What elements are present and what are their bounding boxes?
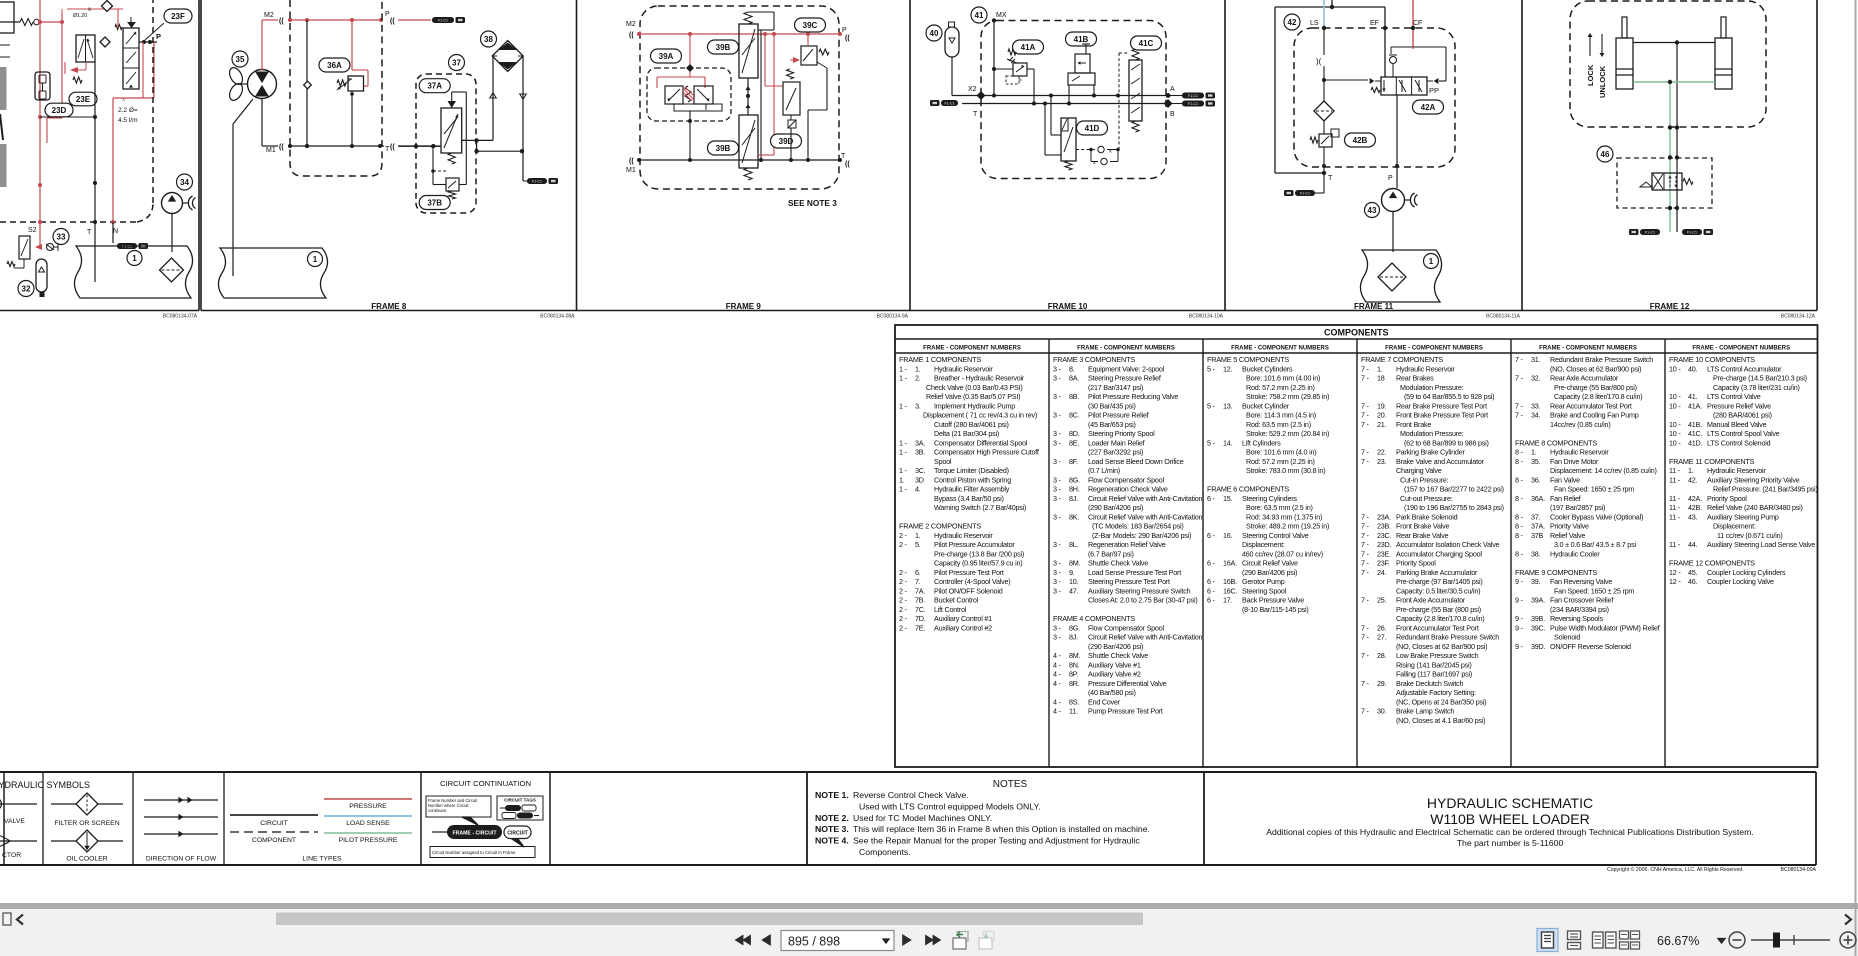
svg-text:40.: 40. bbox=[1688, 364, 1698, 373]
svg-text:Stroke: 529.2 mm (20.84 in): Stroke: 529.2 mm (20.84 in) bbox=[1246, 429, 1329, 438]
svg-text:18: 18 bbox=[1377, 374, 1385, 383]
svg-text:Additional copies of this Hydr: Additional copies of this Hydraulic and … bbox=[1266, 827, 1754, 837]
svg-text:34: 34 bbox=[180, 178, 189, 187]
svg-text:7 -: 7 - bbox=[1361, 374, 1370, 383]
svg-text:6 -: 6 - bbox=[1207, 596, 1216, 605]
svg-text:(197 Bar/2857 psi): (197 Bar/2857 psi) bbox=[1550, 503, 1605, 512]
svg-text:8 -: 8 - bbox=[1515, 475, 1524, 484]
svg-text:7 -: 7 - bbox=[1361, 401, 1370, 410]
svg-text:Pre-charge (55 Bar (800 psi): Pre-charge (55 Bar (800 psi) bbox=[1396, 605, 1481, 614]
svg-text:3 -: 3 - bbox=[1053, 633, 1062, 642]
svg-text:A: A bbox=[1170, 86, 1175, 93]
svg-text:Loader Main Relief: Loader Main Relief bbox=[1088, 438, 1145, 447]
svg-text:36A.: 36A. bbox=[1531, 494, 1545, 503]
svg-text:7A.: 7A. bbox=[915, 586, 925, 595]
svg-text:7 -: 7 - bbox=[1361, 623, 1370, 632]
svg-text:BC080134-11A: BC080134-11A bbox=[1486, 314, 1520, 320]
svg-text:COMPONENTS: COMPONENTS bbox=[1324, 328, 1389, 338]
svg-text:8D.: 8D. bbox=[1069, 429, 1080, 438]
svg-text:Hydraulic Filter Assembly: Hydraulic Filter Assembly bbox=[934, 485, 1010, 494]
svg-text:Fan Reversing Valve: Fan Reversing Valve bbox=[1550, 577, 1612, 586]
svg-text:66.67%: 66.67% bbox=[1657, 934, 1699, 948]
svg-text:41D: 41D bbox=[1085, 124, 1100, 133]
svg-text:Implement Hydraulic Pump: Implement Hydraulic Pump bbox=[934, 401, 1015, 410]
svg-text:28.: 28. bbox=[1377, 651, 1387, 660]
svg-text:7 -: 7 - bbox=[1361, 707, 1370, 716]
svg-text:23.: 23. bbox=[1377, 457, 1387, 466]
svg-text:3 -: 3 - bbox=[1053, 586, 1062, 595]
svg-text:VALVE: VALVE bbox=[4, 818, 25, 825]
svg-text:5 -: 5 - bbox=[1207, 438, 1216, 447]
svg-text:27.: 27. bbox=[1377, 633, 1387, 642]
svg-text:HYDRAULIC SYMBOLS: HYDRAULIC SYMBOLS bbox=[0, 780, 90, 790]
svg-text:3 -: 3 - bbox=[1053, 374, 1062, 383]
svg-text:FRAME 8: FRAME 8 bbox=[371, 302, 407, 311]
svg-text:Parking Brake Accumulator: Parking Brake Accumulator bbox=[1396, 568, 1478, 577]
svg-text:Cutoff (280 Bar/4061 psi): Cutoff (280 Bar/4061 psi) bbox=[934, 420, 1009, 429]
svg-text:((: (( bbox=[390, 144, 395, 151]
svg-text:CIRCUIT: CIRCUIT bbox=[260, 820, 288, 827]
svg-text:23D.: 23D. bbox=[1377, 540, 1392, 549]
svg-text:42: 42 bbox=[1288, 18, 1297, 27]
svg-text:BC080134-07A: BC080134-07A bbox=[163, 314, 198, 320]
svg-text:7 -: 7 - bbox=[1361, 596, 1370, 605]
svg-text:Auxiliary Valve #1: Auxiliary Valve #1 bbox=[1088, 660, 1141, 669]
svg-text:T: T bbox=[973, 111, 978, 118]
svg-text:Coupler Locking Valve: Coupler Locking Valve bbox=[1707, 577, 1774, 586]
svg-text:20.: 20. bbox=[1377, 411, 1387, 420]
svg-text:2 -: 2 - bbox=[899, 586, 908, 595]
svg-text:(8-10 Bar/115-145 psi): (8-10 Bar/115-145 psi) bbox=[1242, 605, 1309, 614]
svg-text:33.: 33. bbox=[1531, 401, 1541, 410]
svg-text:Hydraulic Reservoir: Hydraulic Reservoir bbox=[934, 364, 993, 373]
svg-text:7 -: 7 - bbox=[1361, 540, 1370, 549]
svg-text:FRAME 11 COMPONENTS: FRAME 11 COMPONENTS bbox=[1669, 457, 1755, 466]
svg-text:Pre-charge (55 Bar/800 psi): Pre-charge (55 Bar/800 psi) bbox=[1554, 383, 1637, 392]
svg-text:1.: 1. bbox=[899, 475, 905, 484]
svg-text:41A.: 41A. bbox=[1688, 401, 1702, 410]
svg-text:23E.: 23E. bbox=[1377, 549, 1391, 558]
svg-text:7 -: 7 - bbox=[1361, 568, 1370, 577]
svg-text:LTS Control Valve: LTS Control Valve bbox=[1707, 392, 1761, 401]
svg-text:7 -: 7 - bbox=[1515, 355, 1524, 364]
svg-text:(30 Bar/435 psi): (30 Bar/435 psi) bbox=[1088, 401, 1136, 410]
svg-text:3.0 ± 0.6 Bar/ 43.5 ± 8.7 psi: 3.0 ± 0.6 Bar/ 43.5 ± 8.7 psi bbox=[1554, 540, 1636, 549]
svg-text:BC080134-10A: BC080134-10A bbox=[1189, 314, 1224, 320]
svg-text:37: 37 bbox=[452, 58, 461, 67]
svg-text:Redundant Brake Pressure Switc: Redundant Brake Pressure Switch bbox=[1550, 355, 1653, 364]
svg-text:8M.: 8M. bbox=[1069, 651, 1081, 660]
svg-text:7 -: 7 - bbox=[1361, 549, 1370, 558]
svg-text:W110B WHEEL LOADER: W110B WHEEL LOADER bbox=[1430, 811, 1590, 827]
svg-text:7.: 7. bbox=[915, 577, 921, 586]
svg-text:Capacity (3.78 liter/231 cu/in: Capacity (3.78 liter/231 cu/in) bbox=[1713, 383, 1800, 392]
svg-text:F1-C1: F1-C1 bbox=[1687, 230, 1697, 234]
svg-text:MX: MX bbox=[996, 12, 1007, 19]
svg-text:1: 1 bbox=[1429, 257, 1434, 266]
svg-text:((: (( bbox=[629, 32, 634, 39]
svg-text:8 -: 8 - bbox=[1515, 448, 1524, 457]
svg-text:LTS Control Spool Valve: LTS Control Spool Valve bbox=[1707, 429, 1780, 438]
svg-text:11 -: 11 - bbox=[1669, 466, 1681, 475]
svg-text:End Cover: End Cover bbox=[1088, 697, 1121, 706]
svg-text:LINE TYPES: LINE TYPES bbox=[302, 856, 342, 863]
svg-text:23F: 23F bbox=[171, 12, 185, 21]
svg-text:Lift Control: Lift Control bbox=[934, 605, 967, 614]
svg-text:Bucket Cylinders: Bucket Cylinders bbox=[1242, 364, 1293, 373]
svg-text:Delta (21 Bar/304 psi): Delta (21 Bar/304 psi) bbox=[934, 429, 999, 438]
svg-text:F1-C1: F1-C1 bbox=[1188, 94, 1198, 98]
svg-text:3 -: 3 - bbox=[1053, 392, 1062, 401]
svg-text:3C.: 3C. bbox=[915, 466, 926, 475]
svg-text:Rear Brake Valve: Rear Brake Valve bbox=[1396, 531, 1448, 540]
svg-text:Parking Brake Cylinder: Parking Brake Cylinder bbox=[1396, 448, 1465, 457]
svg-text:10 -: 10 - bbox=[1669, 392, 1681, 401]
svg-text:41D.: 41D. bbox=[1688, 438, 1703, 447]
svg-text:7 -: 7 - bbox=[1361, 457, 1370, 466]
svg-text:Auxiliary Steering Priority Va: Auxiliary Steering Priority Valve bbox=[1707, 475, 1800, 484]
svg-text:FRAME - COMPONENT NUMBERS: FRAME - COMPONENT NUMBERS bbox=[1231, 346, 1329, 352]
svg-text:3 -: 3 - bbox=[1053, 364, 1062, 373]
svg-text:1 -: 1 - bbox=[899, 448, 908, 457]
svg-text:23B.: 23B. bbox=[1377, 522, 1391, 531]
svg-text:7B.: 7B. bbox=[915, 596, 925, 605]
svg-text:PP: PP bbox=[1429, 86, 1439, 95]
svg-text:23A.: 23A. bbox=[1377, 512, 1391, 521]
svg-text:3.: 3. bbox=[915, 401, 921, 410]
svg-text:2 -: 2 - bbox=[899, 577, 908, 586]
svg-text:3 -: 3 - bbox=[1053, 494, 1062, 503]
svg-text:Priority Spool: Priority Spool bbox=[1707, 494, 1747, 503]
svg-text:41B: 41B bbox=[1074, 35, 1089, 44]
svg-text:CTOR: CTOR bbox=[2, 852, 21, 859]
svg-text:42B: 42B bbox=[1353, 136, 1368, 145]
svg-text:4 -: 4 - bbox=[1053, 651, 1062, 660]
svg-text:M1: M1 bbox=[626, 167, 636, 174]
svg-text:7 -: 7 - bbox=[1515, 374, 1524, 383]
svg-text:4.: 4. bbox=[915, 485, 921, 494]
svg-text:Pre-charge (13.8 Bar /200 psi): Pre-charge (13.8 Bar /200 psi) bbox=[934, 549, 1024, 558]
svg-text:Rear Brakes: Rear Brakes bbox=[1396, 374, 1434, 383]
svg-text:8K.: 8K. bbox=[1069, 512, 1079, 521]
svg-text:41B.: 41B. bbox=[1688, 420, 1702, 429]
svg-text:T: T bbox=[1328, 175, 1333, 182]
svg-text:CIRCUIT: CIRCUIT bbox=[507, 831, 527, 837]
svg-text:10 -: 10 - bbox=[1669, 438, 1681, 447]
svg-text:(40 Bar/580 psi): (40 Bar/580 psi) bbox=[1088, 688, 1136, 697]
svg-text:Accumulator Isolation Check Va: Accumulator Isolation Check Valve bbox=[1396, 540, 1499, 549]
svg-text:10 -: 10 - bbox=[1669, 364, 1681, 373]
svg-text:Flow Compensator Spool: Flow Compensator Spool bbox=[1088, 623, 1164, 632]
svg-text:LOAD SENSE: LOAD SENSE bbox=[346, 820, 390, 827]
svg-text:Pilot Pressure Accumulator: Pilot Pressure Accumulator bbox=[934, 540, 1015, 549]
svg-text:4 -: 4 - bbox=[1053, 670, 1062, 679]
svg-text:FRAME - COMPONENT NUMBERS: FRAME - COMPONENT NUMBERS bbox=[1077, 346, 1175, 352]
svg-text:((: (( bbox=[279, 144, 284, 151]
svg-text:LOCK: LOCK bbox=[1586, 64, 1595, 86]
svg-text:ON/OFF Reverse Solenoid: ON/OFF Reverse Solenoid bbox=[1550, 642, 1631, 651]
svg-text:10 -: 10 - bbox=[1669, 401, 1681, 410]
svg-text:1.: 1. bbox=[915, 364, 921, 373]
svg-text:FRAME 6 COMPONENTS: FRAME 6 COMPONENTS bbox=[1207, 485, 1289, 494]
svg-text:See the Repair Manual for the: See the Repair Manual for the proper Tes… bbox=[853, 836, 1140, 846]
svg-text:Bore: 114.3 mm (4.5 in): Bore: 114.3 mm (4.5 in) bbox=[1246, 411, 1316, 420]
svg-text:Front Brake Valve: Front Brake Valve bbox=[1396, 522, 1449, 531]
svg-text:CIRCUIT TAGS: CIRCUIT TAGS bbox=[504, 798, 536, 803]
svg-text:Breather - Hydraulic Reservoir: Breather - Hydraulic Reservoir bbox=[934, 374, 1025, 383]
svg-text:Displacement:: Displacement: bbox=[1242, 540, 1285, 549]
svg-text:((: (( bbox=[390, 18, 395, 25]
svg-text:13.: 13. bbox=[1223, 401, 1233, 410]
svg-text:23D: 23D bbox=[52, 106, 67, 115]
svg-text:8E.: 8E. bbox=[1069, 438, 1079, 447]
svg-text:Brake Valve and Accumulator: Brake Valve and Accumulator bbox=[1396, 457, 1485, 466]
svg-text:41: 41 bbox=[975, 11, 984, 20]
svg-text:14cc/rev (0.85 cu/in): 14cc/rev (0.85 cu/in) bbox=[1550, 420, 1611, 429]
svg-text:Park Brake Solenoid: Park Brake Solenoid bbox=[1396, 512, 1458, 521]
svg-text:Controller (4-Spool Valve): Controller (4-Spool Valve) bbox=[934, 577, 1010, 586]
svg-text:x: x bbox=[1109, 149, 1112, 155]
svg-text:(217 Bar/3147 psi): (217 Bar/3147 psi) bbox=[1088, 383, 1143, 392]
svg-text:Capacity: 0.5 liter/30.5 cu/in: Capacity: 0.5 liter/30.5 cu/in) bbox=[1396, 586, 1480, 595]
svg-text:Auxiliary Steering Load Sense: Auxiliary Steering Load Sense Valve bbox=[1707, 540, 1815, 549]
svg-text:(0.7 L/min): (0.7 L/min) bbox=[1088, 466, 1120, 475]
svg-text:7 -: 7 - bbox=[1515, 401, 1524, 410]
svg-text:46.: 46. bbox=[1688, 577, 1698, 586]
svg-text:P: P bbox=[156, 32, 161, 41]
svg-text:11 -: 11 - bbox=[1669, 512, 1681, 521]
svg-text:Priority Valve: Priority Valve bbox=[1550, 522, 1589, 531]
svg-text:Steering Control Valve: Steering Control Valve bbox=[1242, 531, 1309, 540]
svg-text:16B.: 16B. bbox=[1223, 577, 1237, 586]
svg-text:4 -: 4 - bbox=[1053, 697, 1062, 706]
svg-text:Compensator High Pressure Cuto: Compensator High Pressure Cutoff bbox=[934, 448, 1039, 457]
svg-text:46: 46 bbox=[1601, 150, 1610, 159]
svg-text:Brake Declutch Switch: Brake Declutch Switch bbox=[1396, 679, 1464, 688]
svg-text:Auxiliary Steering Pressure Sw: Auxiliary Steering Pressure Switch bbox=[1088, 586, 1191, 595]
svg-text:Rod: 63.5 mm (2.5 in): Rod: 63.5 mm (2.5 in) bbox=[1246, 420, 1311, 429]
svg-text:Pilot Pressure Relief: Pilot Pressure Relief bbox=[1088, 411, 1149, 420]
svg-text:FILTER OR SCREEN: FILTER OR SCREEN bbox=[54, 820, 119, 827]
svg-text:Displacement ( 71 cc rev/4.3 c: Displacement ( 71 cc rev/4.3 cu in rev) bbox=[923, 411, 1037, 420]
svg-text:26.: 26. bbox=[1377, 623, 1387, 632]
svg-text:8C.: 8C. bbox=[1069, 411, 1080, 420]
svg-text:38: 38 bbox=[484, 35, 493, 44]
svg-text:FRAME - CIRCUIT: FRAME - CIRCUIT bbox=[452, 831, 497, 837]
svg-text:X2: X2 bbox=[968, 86, 977, 93]
svg-text:5.: 5. bbox=[915, 540, 921, 549]
svg-text:10.: 10. bbox=[1069, 577, 1079, 586]
svg-text:23F.: 23F. bbox=[1377, 559, 1390, 568]
svg-text:(290 Bar/4206 psi): (290 Bar/4206 psi) bbox=[1242, 568, 1297, 577]
svg-text:Rear Accumulator Test Port: Rear Accumulator Test Port bbox=[1550, 401, 1632, 410]
svg-text:Solenoid: Solenoid bbox=[1554, 633, 1580, 642]
svg-text:Ø1.20: Ø1.20 bbox=[73, 13, 87, 19]
svg-text:FRAME 12: FRAME 12 bbox=[1650, 302, 1690, 311]
svg-text:((: (( bbox=[629, 158, 634, 165]
svg-text:3 -: 3 - bbox=[1053, 475, 1062, 484]
svg-text:3 -: 3 - bbox=[1053, 568, 1062, 577]
svg-text:8M.: 8M. bbox=[1069, 559, 1081, 568]
svg-text:Fan Speed: 1650 ± 25 rpm: Fan Speed: 1650 ± 25 rpm bbox=[1554, 586, 1634, 595]
svg-text:8P.: 8P. bbox=[1069, 670, 1078, 679]
svg-text:8.: 8. bbox=[1069, 364, 1075, 373]
svg-text:Bore: 101.6 mm (4.0 in): Bore: 101.6 mm (4.0 in) bbox=[1246, 448, 1316, 457]
svg-text:FRAME - COMPONENT NUMBERS: FRAME - COMPONENT NUMBERS bbox=[923, 346, 1021, 352]
svg-text:Front Brake Pressure Test Port: Front Brake Pressure Test Port bbox=[1396, 411, 1488, 420]
svg-text:OIL COOLER: OIL COOLER bbox=[66, 856, 107, 863]
svg-text:1: 1 bbox=[313, 255, 318, 264]
svg-text:CIRCUIT CONTINUATION: CIRCUIT CONTINUATION bbox=[440, 779, 531, 788]
svg-text:PRESSURE: PRESSURE bbox=[349, 803, 387, 810]
svg-text:8 -: 8 - bbox=[1515, 494, 1524, 503]
svg-text:F1-C1: F1-C1 bbox=[1645, 230, 1655, 234]
svg-text:FRAME 7 COMPONENTS: FRAME 7 COMPONENTS bbox=[1361, 355, 1443, 364]
svg-text:9 -: 9 - bbox=[1515, 642, 1524, 651]
svg-text:((: (( bbox=[279, 18, 284, 25]
svg-text:FRAME 3 COMPONENTS: FRAME 3 COMPONENTS bbox=[1053, 355, 1135, 364]
svg-text:Stroke: 758.2 mm (29.85 in): Stroke: 758.2 mm (29.85 in) bbox=[1246, 392, 1329, 401]
svg-text:8G.: 8G. bbox=[1069, 475, 1080, 484]
svg-text:FRAME 9: FRAME 9 bbox=[726, 302, 762, 311]
svg-text:S2: S2 bbox=[28, 227, 37, 234]
svg-text:Hydraulic Reservoir: Hydraulic Reservoir bbox=[934, 531, 993, 540]
svg-text:Copyright © 2006. CNH America: Copyright © 2006. CNH America, LLC. All … bbox=[1607, 866, 1744, 873]
svg-text:NOTE 2.: NOTE 2. bbox=[815, 813, 849, 823]
svg-text:9 -: 9 - bbox=[1515, 614, 1524, 623]
svg-text:8N.: 8N. bbox=[1069, 660, 1080, 669]
svg-text:16.: 16. bbox=[1223, 531, 1233, 540]
svg-text:Shuttle Check Valve: Shuttle Check Valve bbox=[1088, 651, 1148, 660]
svg-text:31.: 31. bbox=[1531, 355, 1541, 364]
svg-text:8G.: 8G. bbox=[1069, 623, 1080, 632]
svg-text:Rod: 34.93 mm (1.375 in): Rod: 34.93 mm (1.375 in) bbox=[1246, 512, 1322, 521]
svg-text:Bore: 101.6 mm (4.00 in): Bore: 101.6 mm (4.00 in) bbox=[1246, 374, 1320, 383]
svg-text:Steering Pressure Relief: Steering Pressure Relief bbox=[1088, 374, 1161, 383]
svg-text:Front Brake: Front Brake bbox=[1396, 420, 1431, 429]
svg-text:Rod: 57.2 mm (2.25 in): Rod: 57.2 mm (2.25 in) bbox=[1246, 457, 1315, 466]
svg-text:1.: 1. bbox=[1688, 466, 1694, 475]
svg-text:7 -: 7 - bbox=[1361, 448, 1370, 457]
svg-text:4.5 l/m: 4.5 l/m bbox=[118, 117, 138, 124]
svg-text:42A.: 42A. bbox=[1688, 494, 1702, 503]
svg-text:FRAME 10: FRAME 10 bbox=[1048, 302, 1088, 311]
svg-text:FRAME 11: FRAME 11 bbox=[1354, 302, 1394, 311]
svg-text:Steering Pressure Test Port: Steering Pressure Test Port bbox=[1088, 577, 1170, 586]
svg-text:3 -: 3 - bbox=[1053, 411, 1062, 420]
svg-text:Hydraulic Reservoir: Hydraulic Reservoir bbox=[1707, 466, 1766, 475]
svg-text:Accumulator Charging Spool: Accumulator Charging Spool bbox=[1396, 549, 1482, 558]
svg-text:x: x bbox=[122, 97, 125, 103]
svg-text:35.: 35. bbox=[1531, 457, 1541, 466]
svg-text:39B.: 39B. bbox=[1531, 614, 1545, 623]
svg-text:7 -: 7 - bbox=[1361, 420, 1370, 429]
svg-text:39A.: 39A. bbox=[1531, 596, 1545, 605]
svg-text:BC080134-08A: BC080134-08A bbox=[540, 314, 575, 320]
svg-text:Adjustable Factory Setting:: Adjustable Factory Setting: bbox=[1396, 688, 1476, 697]
svg-text:12 -: 12 - bbox=[1669, 568, 1681, 577]
svg-text:1.: 1. bbox=[1377, 364, 1383, 373]
svg-text:Regeneration Check Valve: Regeneration Check Valve bbox=[1088, 485, 1168, 494]
svg-text:Gerotor Pump: Gerotor Pump bbox=[1242, 577, 1285, 586]
svg-text:FRAME 2 COMPONENTS: FRAME 2 COMPONENTS bbox=[899, 522, 981, 531]
svg-text:BC080134-9A: BC080134-9A bbox=[877, 314, 909, 320]
svg-text:2 -: 2 - bbox=[899, 614, 908, 623]
svg-text:Cut-out Pressure:: Cut-out Pressure: bbox=[1400, 494, 1453, 503]
svg-text:22.: 22. bbox=[1377, 448, 1387, 457]
svg-text:8J.: 8J. bbox=[1069, 494, 1078, 503]
svg-text:F1-C1: F1-C1 bbox=[945, 101, 955, 105]
svg-text:1.: 1. bbox=[915, 531, 921, 540]
svg-text:6 -: 6 - bbox=[1207, 494, 1216, 503]
svg-text:Flow Compensator Spool: Flow Compensator Spool bbox=[1088, 475, 1164, 484]
svg-text:47.: 47. bbox=[1069, 586, 1079, 595]
svg-text:Load Sense Pressure Test Port: Load Sense Pressure Test Port bbox=[1088, 568, 1181, 577]
svg-text:6 -: 6 - bbox=[1207, 559, 1216, 568]
svg-text:37B: 37B bbox=[427, 198, 442, 207]
svg-text:16C.: 16C. bbox=[1223, 586, 1238, 595]
svg-text:(62 to 68 Bar/899 to 986 psi): (62 to 68 Bar/899 to 986 psi) bbox=[1404, 438, 1489, 447]
svg-text:8 -: 8 - bbox=[1515, 531, 1524, 540]
svg-text:Control Piston with Spring: Control Piston with Spring bbox=[934, 475, 1011, 484]
svg-text:11 -: 11 - bbox=[1669, 540, 1681, 549]
svg-text:11 -: 11 - bbox=[1669, 503, 1681, 512]
svg-text:2.: 2. bbox=[915, 374, 921, 383]
svg-text:Auxiliary Valve #2: Auxiliary Valve #2 bbox=[1088, 670, 1141, 679]
svg-text:1 -: 1 - bbox=[899, 466, 908, 475]
svg-text:B: B bbox=[1170, 111, 1175, 118]
svg-text:M2: M2 bbox=[264, 12, 274, 19]
svg-text:Circuit Relief Valve with Anti: Circuit Relief Valve with Anti-Cavitatio… bbox=[1088, 633, 1203, 642]
svg-text:(NO, Closes at 4.1 Bar/60 psi): (NO, Closes at 4.1 Bar/60 psi) bbox=[1396, 716, 1485, 725]
svg-text:6 -: 6 - bbox=[1207, 577, 1216, 586]
svg-text:Compensator Differential Spool: Compensator Differential Spool bbox=[934, 438, 1028, 447]
svg-text:4 -: 4 - bbox=[1053, 679, 1062, 688]
svg-text:23C.: 23C. bbox=[1377, 531, 1392, 540]
svg-text:39D.: 39D. bbox=[1531, 642, 1546, 651]
svg-text:Priority Spool: Priority Spool bbox=[1396, 559, 1436, 568]
svg-text:10 -: 10 - bbox=[1669, 420, 1681, 429]
svg-text:(280 BAR/4061 psi): (280 BAR/4061 psi) bbox=[1713, 411, 1772, 420]
svg-text:(NC, Opens at 24 Bar/350 psi): (NC, Opens at 24 Bar/350 psi) bbox=[1396, 697, 1486, 706]
svg-text:32: 32 bbox=[22, 284, 31, 293]
svg-text:Warning Switch (2.7 Bar/40psi): Warning Switch (2.7 Bar/40psi) bbox=[934, 503, 1026, 512]
svg-text:Hydraulic Reservoir: Hydraulic Reservoir bbox=[1396, 364, 1455, 373]
svg-text:Rear Axle Accumulator: Rear Axle Accumulator bbox=[1550, 374, 1619, 383]
svg-text:Rising (141 Bar/2045 psi): Rising (141 Bar/2045 psi) bbox=[1396, 660, 1472, 669]
svg-text:DIRECTION OF FLOW: DIRECTION OF FLOW bbox=[146, 856, 217, 863]
svg-text:(290 Bar/4206 psi): (290 Bar/4206 psi) bbox=[1088, 503, 1143, 512]
svg-text:FRAME 9 COMPONENTS: FRAME 9 COMPONENTS bbox=[1515, 568, 1597, 577]
svg-text:7 -: 7 - bbox=[1361, 364, 1370, 373]
svg-text:Modulation Pressure:: Modulation Pressure: bbox=[1400, 429, 1464, 438]
svg-text:EF: EF bbox=[1370, 20, 1379, 27]
svg-text:FRAME 4 COMPONENTS: FRAME 4 COMPONENTS bbox=[1053, 614, 1135, 623]
svg-text:NOTE 3.: NOTE 3. bbox=[815, 824, 849, 834]
svg-text:(190 to 196 Bar/2755 to 2843 p: (190 to 196 Bar/2755 to 2843 psi) bbox=[1404, 503, 1504, 512]
svg-text:7E.: 7E. bbox=[915, 623, 925, 632]
svg-text:Displacement: 14 cc/rev (0.85: Displacement: 14 cc/rev (0.85 cu/in) bbox=[1550, 466, 1657, 475]
svg-text:10 -: 10 - bbox=[1669, 429, 1681, 438]
svg-text:(59 to 64 Bar/855.5 to 928 psi: (59 to 64 Bar/855.5 to 928 psi) bbox=[1404, 392, 1494, 401]
svg-text:Manual Bleed Valve: Manual Bleed Valve bbox=[1707, 420, 1767, 429]
svg-text:7 -: 7 - bbox=[1361, 559, 1370, 568]
svg-text:1 -: 1 - bbox=[899, 374, 908, 383]
svg-text:41.: 41. bbox=[1688, 392, 1698, 401]
svg-text:17.: 17. bbox=[1223, 596, 1233, 605]
svg-text:37B: 37B bbox=[1531, 531, 1544, 540]
svg-text:4 -: 4 - bbox=[1053, 660, 1062, 669]
